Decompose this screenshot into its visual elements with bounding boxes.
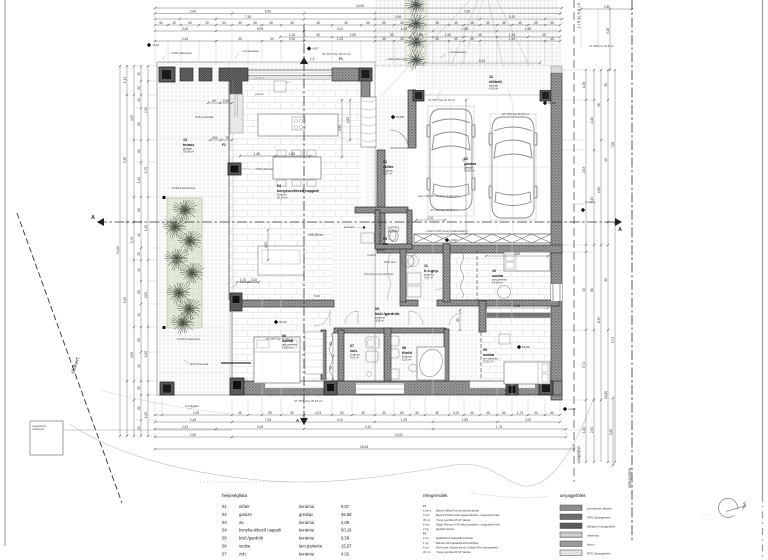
svg-text:4,10: 4,10 [337,418,343,422]
faint witness verticals through building [261,66,263,395]
svg-text:1,25: 1,25 [401,418,407,422]
svg-text:1,85: 1,85 [350,33,356,37]
garage parking space dashed outlines [428,106,474,216]
svg-text:2,85: 2,85 [338,125,342,131]
section line vertical [303,26,305,425]
svg-text:előtető: előtető [489,79,502,84]
wardrobe band room09 [487,313,550,318]
svg-text:s.mosó gép: s.mosó gép [253,78,265,80]
elevation marks [391,115,395,119]
svg-text:kerámia: kerámia [299,551,315,556]
svg-text:1,85: 1,85 [462,27,468,31]
svg-text:grézséb: grézséb [255,93,264,96]
entry floor tiles [366,96,408,217]
wall room10/09 [479,300,559,306]
svg-text:kerámia: kerámia [299,520,315,525]
bottom wall window gaps [265,380,330,388]
svg-text:szoba: szoba [239,544,251,549]
wardrobe room06 [305,332,323,374]
svg-text:wc: wc [239,520,244,525]
svg-text:85: 85 [390,33,394,37]
pillar bottom building corner left [230,378,244,395]
right dimension chain block [585,70,587,462]
svg-text:36: 36 [597,103,601,107]
svg-text:60: 60 [340,411,344,415]
svg-text:kerámia: kerámia [299,528,315,533]
wc shelf [361,233,374,243]
svg-text:1,85: 1,85 [462,418,468,422]
bath floor tiles [391,333,444,383]
wall living/eloter vertical [361,81,370,97]
svg-text:45: 45 [137,313,141,317]
svg-text:szoba: szoba [483,352,495,357]
wc bottom wall [375,244,412,249]
svg-text:40: 40 [415,21,419,25]
svg-text:1,60: 1,60 [144,351,148,357]
pillar at living bottom wall [230,293,242,311]
tall cabinet column [230,94,243,133]
terrace edge outline [157,62,375,395]
svg-text:5/15 fa lamella: 5/15 fa lamella [195,115,214,119]
bathtub [417,347,445,380]
svg-text:45 cm: 45 cm [423,518,431,522]
svg-text:szellőző: szellőző [367,254,377,257]
svg-text:5/5 lécváz, közötte lécver Un: 5/5 lécváz, közötte lécver Unifloot Prof… [436,545,499,549]
svg-text:45: 45 [137,426,141,430]
svg-text:1,73: 1,73 [517,411,523,415]
svg-text:F1: F1 [423,504,427,508]
dining table [273,157,321,179]
svg-text:oldalkert: oldalkert [577,446,582,464]
svg-text:60: 60 [502,411,506,415]
svg-text:beton: beton [587,542,595,546]
porch pillar left [413,90,424,101]
svg-text:A: A [618,227,622,233]
wall szoba06 east [321,330,326,381]
svg-text:40: 40 [486,21,490,25]
svg-text:hőszig/hmvszig hőtárolótip.: hőszig/hmvszig hőtárolótip. [364,273,394,276]
green planted strip on terrace [167,198,202,328]
svg-text:~ 2300 pillérelem: ~ 2300 pillérelem [169,51,192,55]
svg-text:16,08: 16,08 [360,445,368,449]
svg-text:2,10: 2,10 [427,216,433,220]
svg-text:30: 30 [290,21,294,25]
svg-text:45: 45 [238,37,242,41]
svg-text:AT XPS Top 30 15 cm: AT XPS Top 30 15 cm [322,52,352,56]
faint witness horizontals through building [157,139,375,141]
porch pillar right [540,90,551,101]
closet curtain corridor niche [461,252,464,298]
svg-text:konyha-étkező nappali: konyha-étkező nappali [277,188,319,193]
svg-text:85: 85 [329,342,333,346]
svg-text:40: 40 [454,37,458,41]
top dimension chain block [155,7,562,9]
svg-text:1 rtg.: 1 rtg. [423,541,429,545]
site contour line [70,397,594,486]
svg-text:konyha-étkező nappali: konyha-étkező nappali [239,528,281,533]
svg-text:14,00: 14,00 [395,433,403,437]
svg-text:5,20: 5,20 [479,59,485,63]
svg-text:Baumit SilikonTop homlokzatvak: Baumit SilikonTop homlokzatvakolat [436,509,479,513]
washbasin bath [409,365,418,372]
svg-text:5,00: 5,00 [314,294,320,298]
svg-text:5 cm: 5 cm [423,545,430,549]
svg-text:9,58 m²: 9,58 m² [375,319,384,323]
svg-text:10/20,5 acéloszlop: 10/20,5 acéloszlop [172,186,196,190]
svg-text:14,00: 14,00 [116,246,120,254]
svg-text:±0,00: ±0,00 [522,345,530,349]
svg-text:55: 55 [268,411,272,415]
svg-text:±0,00: ±0,00 [548,101,556,105]
bed room10 [504,252,550,271]
svg-text:3 mm: 3 mm [423,513,430,517]
svg-text:200: 200 [212,136,218,140]
svg-text:03: 03 [222,520,227,525]
svg-text:60: 60 [400,411,404,415]
wc room walls [375,210,380,248]
svg-text:3,45: 3,45 [257,425,263,429]
svg-text:Laer LSK 20 -rendszamfelismeny: Laer LSK 20 -rendszamfelismeny [418,194,460,198]
svg-text:7,60: 7,60 [464,10,470,14]
steel post b [163,326,166,329]
svg-text:6 mm: 6 mm [423,522,430,526]
svg-text:~ Fabro LWS Smart pellásztókap: ~ Fabro LWS Smart pellásztókapú [425,229,468,233]
svg-text:30: 30 [137,252,141,256]
svg-text:4,45: 4,45 [514,252,520,256]
svg-text:garázs: garázs [239,512,252,517]
svg-text:glettélés-festés: glettélés-festés [436,527,455,531]
bed room06 [254,337,300,383]
svg-text:2,00: 2,00 [144,292,148,298]
svg-text:5,09: 5,09 [257,27,263,31]
wall niche/szoba09 [479,301,486,332]
svg-text:rétegrendek: rétegrendek [423,493,448,498]
connection line from szikkaszto [63,429,232,431]
svg-text:3,62 m²: 3,62 m² [424,276,433,280]
nightstand room09 [499,334,510,344]
svg-text:vasbeton: vasbeton [587,533,600,537]
wall bath/niche [444,329,449,386]
svg-text:. . .: . . . [702,511,709,517]
bottom wall main [232,381,562,395]
svg-text:1,50: 1,50 [525,27,531,31]
svg-text:30 cm: 30 cm [423,550,431,554]
helyiseglista table [200,481,292,483]
svg-text:45: 45 [137,72,141,76]
svg-text:EPS hőszigetelés: EPS hőszigetelés [587,551,611,555]
csapadekviz szikkaszto box [30,421,63,455]
section line A-A horizontal [97,221,622,223]
wc room left wall [375,213,380,248]
svg-text:1,70: 1,70 [240,278,246,282]
svg-text:50,16 m²: 50,16 m² [277,196,288,200]
door arc szoba06 [314,310,330,326]
oldalkert dashed setback line right [573,0,575,482]
svg-text:35: 35 [604,278,608,282]
svg-text:1,5mm: 1,5mm [423,509,432,513]
svg-text:-0,07: -0,07 [312,47,319,51]
svg-text:Ytong Lambda 30 GT falazat: Ytong Lambda 30 GT falazat [436,550,471,554]
svg-text:1,85: 1,85 [254,152,260,156]
wc room right wall [407,213,412,248]
svg-text:70: 70 [225,136,229,140]
small pillar bottom center [324,381,337,395]
svg-text:F2: F2 [423,532,427,536]
svg-text:40: 40 [137,233,141,237]
hh gep appliances [407,273,421,284]
svg-text:2,45: 2,45 [182,37,188,41]
svg-text:45: 45 [366,21,370,25]
page border line right [762,0,764,495]
svg-text:60: 60 [137,338,141,342]
pillar west glazing mid [228,163,241,175]
svg-text:1,25: 1,25 [401,27,407,31]
svg-text:30: 30 [400,37,404,41]
svg-text:199,99 m²: 199,99 m² [308,233,324,237]
terrace paving left [157,62,230,395]
hmv boiler [402,255,414,267]
wall corridor north segment b [437,300,479,306]
svg-text:7,45: 7,45 [265,418,271,422]
svg-text:60: 60 [137,208,141,212]
elevation marker 0,44 [147,43,151,47]
svg-text:40: 40 [137,98,141,102]
pillar top 3 [199,68,212,81]
svg-text:2,65: 2,65 [597,187,601,193]
svg-text:10/10,5 acéloszlop: 10/10,5 acéloszlop [177,337,201,341]
garage/room wall horizontal [377,245,562,253]
svg-text:Bramac 100 páraáteresztő tetőf: Bramac 100 páraáteresztő tetőfólia [436,541,478,545]
svg-text:30: 30 [382,21,386,25]
svg-text:30: 30 [270,37,274,41]
closet curtain niche06 [330,334,333,381]
svg-text:14,34 m²: 14,34 m² [492,281,503,285]
svg-text:01: 01 [222,504,227,509]
svg-text:AT XPS Top 30 15 cm: AT XPS Top 30 15 cm [294,399,324,403]
svg-text:F1: F1 [339,57,343,61]
svg-text:45: 45 [382,37,386,41]
svg-text:-0,44: -0,44 [152,43,159,47]
svg-text:35,58: 35,58 [341,512,352,517]
svg-text:AT XPS Top 30 15 cm: AT XPS Top 30 15 cm [428,98,456,102]
svg-text:5/15 fa lamella: 5/15 fa lamella [190,362,209,366]
svg-text:zuh.: zuh. [350,348,358,353]
wall zuh/bath [384,328,391,384]
svg-text:pórusbeton falazat: pórusbeton falazat [587,506,612,510]
interior small dims [208,102,232,104]
svg-text:1,50: 1,50 [445,33,451,37]
svg-text:1,60: 1,60 [590,117,594,123]
driveway fan diagonals [373,0,470,105]
svg-text:45: 45 [137,364,141,368]
wardrobe eloter [361,97,376,147]
svg-text:45: 45 [269,21,273,25]
svg-text:45: 45 [316,21,320,25]
svg-text:AT XPS Top 30 8 cm: AT XPS Top 30 8 cm [589,44,614,48]
svg-text:02: 02 [222,512,227,517]
garage door band (X braced) [414,234,551,243]
pillar bottom szoba09 [506,384,518,395]
svg-text:04: 04 [222,528,227,533]
living area floor [230,80,361,302]
svg-text:40: 40 [470,411,474,415]
svg-text:2,45: 2,45 [190,418,196,422]
svg-text:40: 40 [550,21,554,25]
svg-text:5,71: 5,71 [611,337,615,343]
svg-text:Rigips Rimano 6-30 vékonyvakol: Rigips Rimano 6-30 vékonyvakolat + üvegs… [436,522,500,526]
zuh floor tiles [335,333,383,383]
svg-text:05: 05 [222,536,227,541]
svg-text:+0,02: +0,02 [568,407,576,411]
svg-text:15,57 m²: 15,57 m² [282,346,293,350]
svg-text:40: 40 [415,411,419,415]
svg-text:1,20: 1,20 [144,412,148,418]
bottom wall window under 07/08 [356,383,404,394]
svg-text:2,90: 2,90 [190,433,196,437]
svg-text:AT XPS Top 30 15 cm: AT XPS Top 30 15 cm [266,337,294,341]
svg-text:kandalló: kandalló [344,225,355,229]
wc room top wall [355,207,408,213]
svg-text:90: 90 [329,366,333,370]
svg-text:2,43: 2,43 [182,425,188,429]
svg-text:60: 60 [137,290,141,294]
svg-text:33,08 m²: 33,08 m² [183,150,194,154]
svg-text:50: 50 [159,21,163,25]
lintel line [221,362,251,364]
pillar top 2 [180,68,193,81]
door arcs interior [345,311,358,324]
svg-text:2,50: 2,50 [590,427,594,433]
svg-text:kerámia: kerámia [299,536,315,541]
svg-text:45: 45 [435,411,439,415]
pillar top-left corner [159,67,175,82]
svg-text:2,45: 2,45 [182,27,188,31]
svg-text:kerámia: kerámia [299,504,315,509]
car 1 garage [427,109,475,210]
svg-text:2,15: 2,15 [514,304,520,308]
round table room10 [498,286,511,299]
wall corridor north segment a [400,300,418,306]
svg-text:greslap: greslap [299,512,313,517]
svg-text:2,45: 2,45 [193,411,199,415]
svg-text:1,85: 1,85 [289,152,295,156]
svg-text:5,71: 5,71 [582,362,586,368]
wc floor tiles [380,213,407,248]
svg-text:07: 07 [222,551,227,556]
wall between room11/closet [443,244,450,302]
svg-text:2,05: 2,05 [223,99,229,103]
svg-text:2,30: 2,30 [144,107,148,113]
svg-text:6,35: 6,35 [597,317,601,323]
svg-text:40: 40 [415,37,419,41]
svg-text:4,02: 4,02 [341,551,350,556]
svg-text:30: 30 [137,86,141,90]
svg-text:45: 45 [435,21,439,25]
bedroom06 left glazing [231,310,233,381]
corridor floor [332,222,408,382]
svg-text:50: 50 [550,411,554,415]
svg-text:h.h.gép.: h.h.gép. [424,268,439,273]
svg-text:terasz: terasz [183,142,194,147]
entry wall vertical [408,90,416,148]
svg-text:telekhatár: telekhatár [628,468,633,489]
svg-text:előtér: előtér [383,164,394,169]
svg-text:3,10: 3,10 [289,37,295,41]
svg-text:45: 45 [470,37,474,41]
svg-text:1,13: 1,13 [123,77,127,83]
svg-text:zuh.: zuh. [239,551,247,556]
svg-text:40: 40 [454,21,458,25]
svg-text:8,07 m²: 8,07 m² [383,172,392,176]
terrace deck dotted lines [160,335,230,337]
bed room09 [504,362,550,384]
svg-text:90: 90 [462,158,466,162]
telekhatar boundary dash-dot line [631,0,633,540]
svg-text:1,70: 1,70 [144,167,148,173]
svg-text:40: 40 [582,288,586,292]
svg-text:1,25: 1,25 [337,37,343,41]
shower fixtures room07 [366,337,379,348]
niche floor tiles [449,333,479,383]
car 2 garage [489,117,537,218]
svg-text:AT XPS Top 30 15 cm: AT XPS Top 30 15 cm [430,208,458,212]
kitchen-dining floor right part [304,80,361,302]
svg-text:11,92 m²: 11,92 m² [483,360,494,364]
svg-text:~ 2300 pillérelem: ~ 2300 pillérelem [253,167,275,171]
kitchen island [258,114,338,136]
bottom-left terrace pillar [160,382,174,395]
svg-text:13,80: 13,80 [604,391,608,399]
svg-text:2,16: 2,16 [251,278,257,282]
svg-text:45: 45 [419,33,423,37]
svg-text:1,08: 1,08 [582,82,586,88]
duct line to island [234,94,236,117]
svg-text:45: 45 [542,33,546,37]
svg-text:45: 45 [137,268,141,272]
svg-text:2,40: 2,40 [190,10,196,14]
svg-text:4,10: 4,10 [365,425,371,429]
svg-text:30: 30 [172,21,176,25]
svg-text:60: 60 [456,318,460,322]
svg-text:6,40: 6,40 [265,10,271,14]
svg-text:4,10: 4,10 [453,411,459,415]
svg-text:1,90: 1,90 [395,15,401,19]
svg-text:Ytong Lambda 45 GT falazat: Ytong Lambda 45 GT falazat [436,518,471,522]
svg-text:45: 45 [316,33,320,37]
svg-text:1,45: 1,45 [137,177,141,183]
duct curve [387,249,390,300]
svg-text:3,18: 3,18 [606,28,610,34]
window band top (glazing) [248,69,332,71]
svg-text:wc: wc [382,241,389,246]
svg-text:AT XPS Top 30 15 cm: AT XPS Top 30 15 cm [502,112,530,116]
svg-text:2,06: 2,06 [341,520,350,525]
svg-text:közl./gardrób: közl./gardrób [375,311,400,316]
svg-text:2,05: 2,05 [346,117,350,123]
svg-text:45: 45 [435,37,439,41]
rooms right floors [414,253,552,381]
svg-text:-0,02: -0,02 [450,238,457,242]
svg-text:HMV tárol.: HMV tárol. [384,260,397,264]
svg-text:06: 06 [222,544,227,549]
svg-text:60: 60 [137,149,141,153]
glazing left side of living [228,81,230,300]
bottom witness lines [154,398,156,412]
steel post a [163,196,166,199]
closet niche dashed door [476,250,478,300]
svg-text:16,08: 16,08 [356,4,364,8]
svg-text:4,20 m²: 4,20 m² [489,87,498,91]
